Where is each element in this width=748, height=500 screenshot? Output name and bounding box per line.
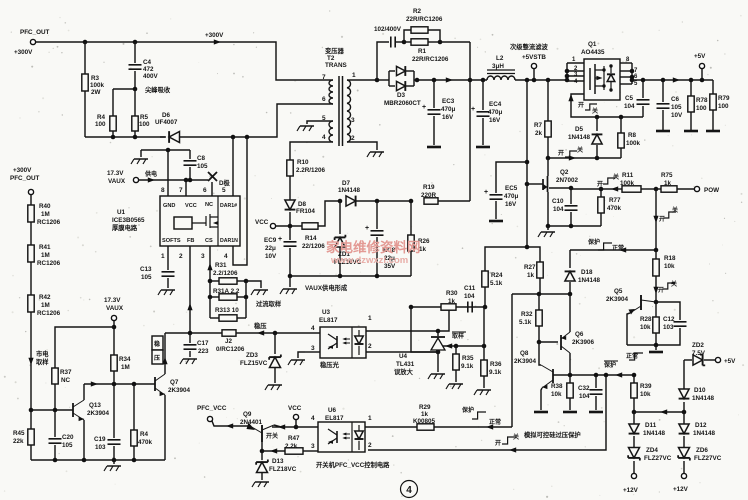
resistor R313 xyxy=(209,297,211,318)
svg-text:2: 2 xyxy=(368,442,372,449)
svg-text:Q5: Q5 xyxy=(614,288,623,295)
wire Q1 out rail xyxy=(632,79,713,81)
diode D6 xyxy=(169,131,179,142)
svg-text:R5: R5 xyxy=(140,114,149,121)
mosfet Q1 package xyxy=(584,59,620,100)
svg-text:1M: 1M xyxy=(121,364,130,371)
svg-text:R313 10: R313 10 xyxy=(215,307,239,314)
svg-text:R45: R45 xyxy=(13,430,25,437)
svg-text:误放大: 误放大 xyxy=(394,367,414,376)
svg-text:R27: R27 xyxy=(524,264,536,271)
svg-text:EC9: EC9 xyxy=(264,237,277,244)
resistor R4b 470k xyxy=(133,384,135,430)
svg-text:223: 223 xyxy=(198,348,209,355)
optocoupler U3 box xyxy=(320,327,366,358)
svg-text:尖峰吸收: 尖峰吸收 xyxy=(145,85,171,94)
svg-text:稳压: 稳压 xyxy=(254,321,267,330)
svg-text:22R/RC1206: 22R/RC1206 xyxy=(406,16,443,23)
capacitor C17 xyxy=(189,333,191,343)
node junction C4 xyxy=(133,40,138,45)
svg-text:1M: 1M xyxy=(41,252,50,259)
wire GND line xyxy=(141,149,190,151)
inductor L2 xyxy=(487,70,515,74)
wire Q5 bottom xyxy=(627,344,656,346)
resistor R14 xyxy=(302,223,318,229)
wire POW line left xyxy=(570,188,572,189)
resistor R18 xyxy=(655,250,657,259)
svg-text:NC: NC xyxy=(61,377,71,384)
svg-text:400V: 400V xyxy=(143,73,159,80)
svg-text:R28: R28 xyxy=(640,316,652,323)
svg-text:R79: R79 xyxy=(718,95,730,102)
capacitor C102 xyxy=(391,37,395,48)
svg-text:开: 开 xyxy=(658,286,664,294)
node regulation arrow xyxy=(257,330,264,335)
svg-text:MBR2060CT: MBR2060CT xyxy=(384,100,421,107)
transformer T2 secondary winding xyxy=(347,80,351,142)
resistor R31A xyxy=(209,281,211,297)
wire U3 pin1 xyxy=(366,307,449,331)
transformer T2 core xyxy=(339,76,343,146)
svg-text:7: 7 xyxy=(322,74,326,81)
svg-text:C11: C11 xyxy=(464,285,476,292)
svg-text:EL817: EL817 xyxy=(325,415,344,422)
svg-text:取样: 取样 xyxy=(36,357,49,366)
svg-text:开: 开 xyxy=(659,215,665,223)
node arrow POW xyxy=(611,186,618,191)
svg-text:2K3904: 2K3904 xyxy=(514,358,537,365)
ground R31 xyxy=(254,289,268,291)
svg-text:R14: R14 xyxy=(305,235,317,242)
ground VAUX rail xyxy=(289,276,291,287)
svg-text:C8: C8 xyxy=(197,155,206,162)
node supply arrow xyxy=(148,177,155,182)
optocoupler U6 box xyxy=(318,422,365,452)
svg-text:1N4148: 1N4148 xyxy=(578,277,601,284)
svg-text:C12: C12 xyxy=(663,316,675,323)
capacitor C8 xyxy=(189,150,191,159)
svg-text:厚膜电路: 厚膜电路 xyxy=(112,223,138,232)
wire gate drive lower xyxy=(548,157,621,159)
wire Q7 collector xyxy=(164,333,166,373)
diode D3 upper xyxy=(389,70,395,72)
svg-text:2N7002: 2N7002 xyxy=(556,177,579,184)
svg-text:关: 关 xyxy=(513,433,519,441)
resistor J2 xyxy=(222,330,236,336)
svg-text:FB: FB xyxy=(187,238,194,244)
svg-text:D5: D5 xyxy=(575,126,584,133)
wire snubber riser xyxy=(377,42,389,80)
resistor R42 xyxy=(28,295,34,312)
svg-text:开: 开 xyxy=(495,439,501,447)
wire 5VSTB drop xyxy=(526,80,528,247)
svg-text:D3: D3 xyxy=(397,92,406,99)
svg-text:C17: C17 xyxy=(197,340,209,347)
wire VAUX to R37 xyxy=(55,327,114,368)
svg-text:470μ: 470μ xyxy=(504,193,519,200)
svg-text:保护: 保护 xyxy=(603,361,616,369)
wire VCC node xyxy=(276,225,302,227)
svg-text:2.2R/1206: 2.2R/1206 xyxy=(296,167,326,174)
wire D3 cathode bus xyxy=(413,71,415,86)
svg-text:105: 105 xyxy=(141,274,152,281)
svg-text:R3: R3 xyxy=(91,75,100,82)
svg-text:FLZ27VC: FLZ27VC xyxy=(644,455,672,462)
svg-text:C32: C32 xyxy=(578,385,590,392)
wire mains sense column xyxy=(30,312,32,410)
wire +300V rail xyxy=(36,42,330,80)
wire Q2 ground rail xyxy=(548,225,601,227)
svg-text:正常: 正常 xyxy=(489,418,501,426)
ground pin2 xyxy=(370,151,384,153)
svg-text:4: 4 xyxy=(311,325,315,332)
svg-text:稳压光: 稳压光 xyxy=(320,360,340,369)
svg-text:2N4401: 2N4401 xyxy=(240,419,263,426)
svg-text:D13: D13 xyxy=(272,458,284,465)
svg-text:1N4148: 1N4148 xyxy=(568,134,591,141)
resistor R31 xyxy=(219,278,237,284)
svg-text:K00805: K00805 xyxy=(413,418,436,425)
transistor Q13 xyxy=(72,403,74,417)
ground pin5 xyxy=(300,125,314,127)
resistor R79 xyxy=(712,80,714,94)
svg-text:市电: 市电 xyxy=(36,349,49,358)
svg-text:SOFTS: SOFTS xyxy=(162,238,181,244)
wire pin2 to ground xyxy=(350,142,377,150)
svg-text:5.1k: 5.1k xyxy=(519,319,532,326)
diode D8 xyxy=(285,200,295,210)
svg-text:1: 1 xyxy=(368,315,372,322)
svg-text:10k: 10k xyxy=(640,324,651,331)
svg-text:C5: C5 xyxy=(625,95,634,102)
svg-text:1N4148: 1N4148 xyxy=(643,430,666,437)
svg-text:R29: R29 xyxy=(419,404,431,411)
svg-text:保护: 保护 xyxy=(461,406,474,414)
node junction R3 xyxy=(83,40,88,45)
svg-text:104: 104 xyxy=(553,206,564,213)
resistor R75 xyxy=(654,187,659,192)
svg-text:正常: 正常 xyxy=(612,244,624,252)
wire regulation line xyxy=(165,332,320,334)
svg-text:过流取样: 过流取样 xyxy=(256,299,282,308)
zener ZD3 xyxy=(274,333,276,354)
ground Q2 xyxy=(547,226,549,230)
svg-text:R30: R30 xyxy=(446,290,458,297)
svg-text:Q13: Q13 xyxy=(89,402,101,409)
svg-text:R37: R37 xyxy=(60,369,72,376)
svg-text:L2: L2 xyxy=(496,55,504,62)
wire base line xyxy=(84,383,134,385)
svg-text:VAUX: VAUX xyxy=(108,178,126,185)
svg-text:22R/RC1206: 22R/RC1206 xyxy=(412,56,449,63)
svg-text:GND: GND xyxy=(163,203,175,209)
svg-text:U4: U4 xyxy=(399,353,408,360)
wire crowbar feed xyxy=(512,293,570,295)
svg-text:+: + xyxy=(422,104,426,111)
svg-text:C4: C4 xyxy=(143,59,152,66)
label boost box xyxy=(152,336,163,350)
svg-text:1k: 1k xyxy=(448,298,456,305)
resistor R24 xyxy=(485,247,527,271)
svg-text:+300V: +300V xyxy=(13,167,32,174)
svg-text:+: + xyxy=(484,189,488,196)
svg-text:VCC: VCC xyxy=(288,405,302,412)
svg-text:4: 4 xyxy=(322,134,326,141)
svg-text:Q2: Q2 xyxy=(560,169,569,176)
optocoupler U6 transistor xyxy=(336,431,338,443)
svg-text:ZD4: ZD4 xyxy=(646,447,658,454)
svg-text:2: 2 xyxy=(179,253,183,260)
wire 12V or line xyxy=(634,411,684,413)
svg-text:ZD2: ZD2 xyxy=(692,342,704,349)
svg-text:变压器: 变压器 xyxy=(325,46,345,55)
svg-text:UF4007: UF4007 xyxy=(155,119,178,126)
svg-text:103: 103 xyxy=(95,444,106,451)
node Q5 collector xyxy=(654,300,659,305)
svg-text:NC: NC xyxy=(205,202,213,208)
svg-text:6: 6 xyxy=(203,187,207,194)
node arrow VCC xyxy=(278,424,285,429)
node +300V arrow xyxy=(214,39,221,44)
svg-text:ZD3: ZD3 xyxy=(246,352,258,359)
ic U1 inner mosfet xyxy=(192,214,218,228)
resistor R10 xyxy=(287,160,293,176)
svg-text:开: 开 xyxy=(578,101,584,109)
wire bottom rail xyxy=(31,459,165,461)
svg-text:104: 104 xyxy=(624,103,635,110)
capacitor C19 xyxy=(113,384,115,438)
resistor R32 xyxy=(538,294,540,310)
svg-text:2K3906: 2K3906 xyxy=(572,339,595,346)
transistor Q5 xyxy=(640,295,642,310)
svg-text:R36: R36 xyxy=(490,361,502,368)
svg-text:Q8: Q8 xyxy=(520,350,529,357)
capacitor C10 xyxy=(570,188,572,204)
svg-text:1N4148: 1N4148 xyxy=(692,395,715,402)
svg-text:+12V: +12V xyxy=(673,486,689,493)
svg-text:AO4435: AO4435 xyxy=(581,49,605,56)
svg-text:100k: 100k xyxy=(90,82,105,89)
svg-text:ZD6: ZD6 xyxy=(696,447,708,454)
svg-text:R77: R77 xyxy=(609,197,621,204)
wire pin1 to D3 xyxy=(350,79,377,81)
wire U3 pin3 ground xyxy=(305,351,320,353)
svg-text:470k: 470k xyxy=(607,205,622,212)
svg-text:22k: 22k xyxy=(13,438,24,445)
svg-text:+: + xyxy=(278,236,282,243)
svg-text:R31A 2.2: R31A 2.2 xyxy=(213,288,240,295)
capacitor C20 xyxy=(54,410,56,437)
capacitor C5 xyxy=(642,80,644,98)
resistor R36 xyxy=(483,307,485,360)
svg-text:2W: 2W xyxy=(91,89,101,96)
svg-text:22/1206: 22/1206 xyxy=(302,243,325,250)
wire crowbar to opto xyxy=(368,375,606,450)
svg-text:100: 100 xyxy=(718,103,729,110)
capacitor C32 xyxy=(595,375,597,388)
optocoupler U3 led xyxy=(355,336,364,344)
svg-text:7.5V: 7.5V xyxy=(692,350,706,357)
node arrow crowbar out xyxy=(615,372,622,377)
wire VCC node bottom xyxy=(272,426,318,428)
ground U1 gnd xyxy=(140,150,142,157)
svg-text:稳: 稳 xyxy=(154,340,160,348)
svg-text:FR104: FR104 xyxy=(296,208,315,215)
wire Q1 gate drive xyxy=(571,94,643,117)
terminal VCC xyxy=(270,223,275,228)
label normal Q5 xyxy=(629,353,643,360)
node out arrow xyxy=(673,77,680,82)
svg-text:105: 105 xyxy=(671,104,682,111)
terminal +12V left xyxy=(631,473,636,478)
svg-text:4: 4 xyxy=(406,485,412,496)
svg-text:5.1k: 5.1k xyxy=(490,280,503,287)
svg-text:2K3904: 2K3904 xyxy=(606,296,629,303)
resistor R30 xyxy=(441,304,456,310)
wire PFC_VCC xyxy=(212,421,250,426)
svg-text:470μ: 470μ xyxy=(441,106,456,113)
svg-text:T2: T2 xyxy=(327,55,335,62)
svg-text:1: 1 xyxy=(161,253,165,260)
capacitor EC9 xyxy=(289,226,291,240)
capacitor EC8 xyxy=(376,201,378,229)
svg-text:EC4: EC4 xyxy=(489,101,502,108)
svg-text:R31: R31 xyxy=(215,262,227,269)
node sense split xyxy=(525,245,530,250)
svg-text:R1: R1 xyxy=(418,48,427,55)
svg-text:TRANS: TRANS xyxy=(325,62,347,69)
svg-text:R8: R8 xyxy=(628,132,637,139)
svg-text:1k: 1k xyxy=(421,411,429,418)
resistor R8 xyxy=(620,117,622,133)
svg-text:D6: D6 xyxy=(162,112,171,119)
svg-text:2k: 2k xyxy=(535,130,543,137)
wire R18 riser xyxy=(655,189,657,250)
svg-text:开关机PFC_VCC控制电路: 开关机PFC_VCC控制电路 xyxy=(316,460,390,469)
transformer T2 primary winding xyxy=(329,80,333,104)
svg-text:R4: R4 xyxy=(97,114,106,121)
svg-text:17.3V: 17.3V xyxy=(107,170,124,177)
svg-text:R7: R7 xyxy=(534,122,543,129)
svg-text:www.dzwxzl.com: www.dzwxzl.com xyxy=(330,255,408,266)
svg-text:R34: R34 xyxy=(119,356,131,363)
diode D7 xyxy=(346,196,356,206)
terminal POW xyxy=(694,186,699,191)
svg-text:2K3904: 2K3904 xyxy=(168,387,191,394)
svg-text:2.2k: 2.2k xyxy=(285,443,298,450)
node arrow base xyxy=(270,448,277,453)
svg-text:开关: 开关 xyxy=(266,432,278,440)
wire crowbar out xyxy=(570,374,634,376)
ic U1 inner box xyxy=(174,217,192,229)
terminal PFC_OUT mid xyxy=(28,189,33,194)
svg-text:C13: C13 xyxy=(140,266,152,273)
wire pin5 to ground xyxy=(307,121,330,124)
svg-text:RC1206: RC1206 xyxy=(37,310,61,317)
svg-text:472: 472 xyxy=(143,66,154,73)
svg-text:R11: R11 xyxy=(622,172,634,179)
svg-text:0/RC1206: 0/RC1206 xyxy=(216,346,245,353)
node X not connected xyxy=(208,172,217,181)
svg-text:100: 100 xyxy=(95,121,106,128)
ground Q8 xyxy=(534,411,548,414)
svg-text:470μ: 470μ xyxy=(488,109,503,116)
svg-text:VCC: VCC xyxy=(255,219,269,226)
svg-text:16V: 16V xyxy=(505,201,517,208)
node arrow PFC_VCC xyxy=(226,423,233,428)
svg-text:100: 100 xyxy=(696,105,707,112)
svg-text:D10: D10 xyxy=(694,387,706,394)
svg-text:C19: C19 xyxy=(94,436,106,443)
svg-text:J2: J2 xyxy=(225,338,233,345)
svg-text:1k: 1k xyxy=(527,272,535,279)
resistor R38 xyxy=(569,375,571,383)
ground Q5 xyxy=(655,345,657,350)
svg-text:DAR1N: DAR1N xyxy=(220,238,238,244)
svg-text:D7: D7 xyxy=(342,180,351,187)
svg-text:U6: U6 xyxy=(328,407,337,414)
svg-text:100k: 100k xyxy=(620,180,635,187)
svg-text:9.1k: 9.1k xyxy=(489,369,502,376)
svg-text:2.2/1206: 2.2/1206 xyxy=(213,270,238,277)
resistor R26 xyxy=(409,199,414,204)
label page number xyxy=(401,481,418,498)
optocoupler U6 led xyxy=(355,431,364,439)
wire VAUX return rail xyxy=(290,275,411,277)
svg-text:C6: C6 xyxy=(671,96,680,103)
svg-text:保护: 保护 xyxy=(587,238,600,246)
svg-text:10V: 10V xyxy=(265,253,277,260)
svg-text:16V: 16V xyxy=(442,114,454,121)
svg-text:+5V: +5V xyxy=(694,53,706,60)
svg-text:VAUX供电形成: VAUX供电形成 xyxy=(305,283,348,292)
svg-text:D极: D极 xyxy=(219,178,231,187)
svg-text:R75: R75 xyxy=(661,172,673,179)
transistor Q9 xyxy=(261,425,263,442)
svg-text:PFC_VCC: PFC_VCC xyxy=(197,405,227,412)
svg-text:关: 关 xyxy=(672,206,678,214)
node arrow R29 xyxy=(486,424,493,429)
wire Q9 base line xyxy=(262,450,285,452)
ground U3 pin3 xyxy=(291,359,305,361)
resistor R7 xyxy=(547,80,549,121)
svg-text:1: 1 xyxy=(368,415,372,422)
svg-text:220R: 220R xyxy=(421,192,437,199)
wire R14 to D7 xyxy=(318,201,342,226)
svg-text:R40: R40 xyxy=(39,203,51,210)
terminal PFC_OUT xyxy=(30,39,35,44)
svg-text:U3: U3 xyxy=(322,309,331,316)
svg-text:Q1: Q1 xyxy=(588,41,597,48)
diode D12 xyxy=(683,412,685,424)
svg-text:R24: R24 xyxy=(491,272,503,279)
svg-text:C20: C20 xyxy=(62,434,74,441)
wire R29 line xyxy=(365,426,512,428)
svg-text:R18: R18 xyxy=(664,255,676,262)
svg-text:9.1k: 9.1k xyxy=(461,363,474,370)
diode D10 xyxy=(683,402,685,412)
diode D5 xyxy=(596,145,598,158)
svg-text:次级整流滤波: 次级整流滤波 xyxy=(510,42,548,51)
resistor R4 xyxy=(112,89,114,116)
svg-text:开: 开 xyxy=(558,149,564,157)
svg-text:ICE3B0565: ICE3B0565 xyxy=(112,217,145,224)
svg-text:+300V: +300V xyxy=(205,32,224,39)
svg-text:R41: R41 xyxy=(39,244,51,251)
svg-text:关: 关 xyxy=(671,280,677,288)
svg-text:6: 6 xyxy=(322,96,326,103)
svg-text:17.3V: 17.3V xyxy=(104,297,121,304)
